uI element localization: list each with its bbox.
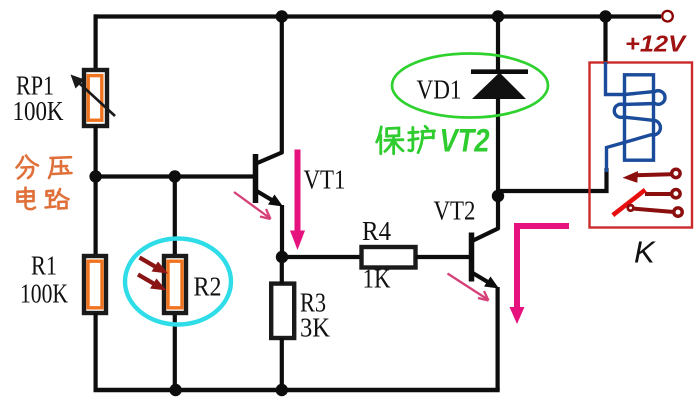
char 压 [49,157,72,178]
relay K box [590,63,693,228]
annotation: magenta current arrow VT1 [290,150,305,251]
wire: left rail mid segment [93,126,97,258]
relay K moving arm [613,190,645,215]
svg-text:R4: R4 [362,216,391,246]
wire: left rail top segment [93,14,97,72]
node: VT1 emitter / R3 / R4 [276,251,288,263]
wire: left rail bottom segment [93,313,97,390]
photoresistor R2 light arrow 1 [140,258,169,274]
label 电路 (hand-drawn strokes) [18,188,69,210]
wire: R3 top lead [280,257,284,284]
node: R2 branch [169,170,181,182]
node: top rail / VT1 collector [276,10,288,22]
wire: R3 bottom lead [280,338,284,390]
wire: diode anode down to node [496,98,500,196]
svg-text:+12V: +12V [625,31,687,57]
annotation: cyan ellipse around R2 [125,239,231,325]
wire: R4 to VT2 base [416,255,470,259]
potentiometer RP1 wiper arrow [71,75,116,117]
annotation: thin pink arrow VT1 emitter [234,192,271,219]
annotation: thin pink arrow VT2 emitter [448,274,489,301]
wire: bottom rail [94,388,500,392]
label 分压 (hand-drawn strokes) [17,156,72,179]
wire: node to relay coil [498,168,607,191]
node: VT2 collector / relay wire [492,190,504,202]
svg-text:1K: 1K [363,264,391,294]
char 分 [17,156,39,179]
node: top rail / diode branch [492,10,504,22]
wire: R2 branch vertical [173,177,177,391]
wire: relay branch black top [603,14,607,64]
photoresistor R2 light arrow 2 [138,275,167,291]
char 路 [46,189,69,209]
wire: node to R4 [282,255,362,259]
svg-text:VT2: VT2 [434,196,476,226]
relay K pole terminal [628,205,682,216]
label 保护 (hand-drawn strokes, green) [377,126,435,153]
node: left rail / base wire [89,170,101,182]
node: bottom rail / R3 [276,384,288,396]
char 保 [377,127,403,154]
node: bottom rail / R2 [169,384,181,396]
wire: diode branch vertical (top rail to cathode) [496,14,500,72]
svg-text:100K: 100K [20,279,68,309]
svg-text:R2: R2 [194,272,222,302]
svg-text:3K: 3K [300,313,330,343]
wire: VT1 base horizontal [96,174,253,178]
svg-text:VT2: VT2 [440,123,490,159]
svg-text:K: K [634,235,656,270]
annotation: magenta current arrow VT2 [510,226,570,324]
wire: top +12V rail [94,14,662,18]
svg-text:100K: 100K [13,96,64,126]
svg-text:VT1: VT1 [304,165,346,195]
potentiometer RP1 body [84,70,107,126]
transistor VT1 [255,152,283,207]
terminal: +12V input circle [662,11,673,22]
svg-text:VD1: VD1 [417,75,462,105]
relay K coil [606,62,666,172]
resistor R3 body [271,284,294,338]
wire: VT1 collector vertical [280,14,284,153]
wire: VT2 collector vertical [496,196,500,229]
resistor R4 body [362,247,416,268]
wire: VT2 emitter vertical [496,287,500,390]
char 护 [409,126,435,152]
node: top rail / relay branch [599,10,611,22]
resistor R1 body [84,256,106,313]
transistor VT2 [471,228,499,289]
photoresistor R2 body [164,256,186,313]
diode VD1 [471,72,528,99]
svg-text:R1: R1 [31,251,57,281]
wire: VT1 emitter vertical [280,205,284,257]
relay K fixed contact (NO) [645,190,680,198]
char 电 [18,188,36,210]
relay K contact pole arrow [623,169,681,183]
annotation: green ellipse around VD1 [392,54,548,118]
